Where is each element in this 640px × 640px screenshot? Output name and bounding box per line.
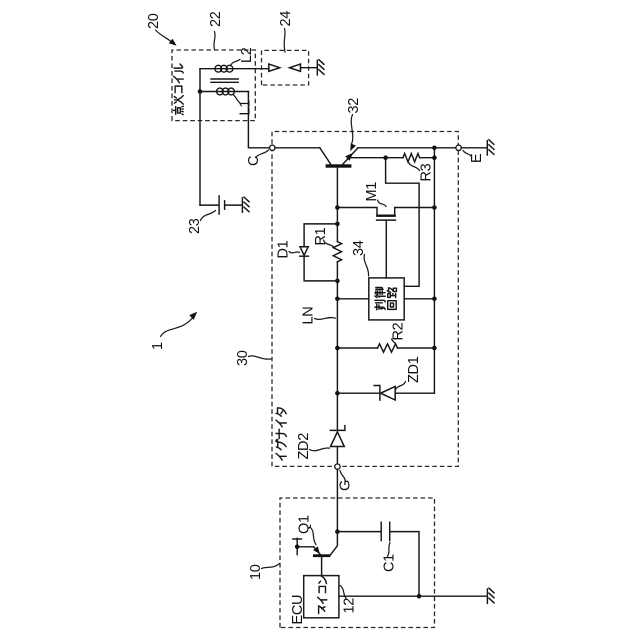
svg-text:34: 34 <box>351 240 367 256</box>
wire battery to ground <box>226 204 242 206</box>
svg-text:12: 12 <box>342 598 358 614</box>
node rail / R3 <box>432 155 437 160</box>
resistor R1 <box>333 242 341 262</box>
label 24 <box>278 11 294 27</box>
IGBT 32 collector lead <box>320 148 331 164</box>
capacitor C1 <box>381 522 390 540</box>
node LN / D1-R1 left <box>335 279 340 284</box>
svg-text:L1: L1 <box>238 100 254 116</box>
leader C1 <box>388 543 391 557</box>
label C <box>246 156 262 166</box>
leader M1 <box>378 200 387 207</box>
leader 22 to coil box <box>214 32 215 50</box>
wire gate line LN <box>336 168 338 431</box>
leader 23 to battery <box>201 211 216 221</box>
node LN / control circuit <box>335 296 340 301</box>
battery 23 (cell) <box>219 196 225 214</box>
label D1 <box>276 240 292 258</box>
ECU dashed box 10 <box>280 498 435 628</box>
svg-text:32: 32 <box>346 98 362 114</box>
label L1 <box>238 100 254 116</box>
ignition coil unit dashed box (points 22, 点火コイル) <box>172 50 255 121</box>
wire R3 to rail <box>420 157 435 159</box>
svg-text:C1: C1 <box>382 554 398 572</box>
node LN / ZD1 branch <box>335 391 340 396</box>
label G <box>338 480 354 491</box>
label 12 <box>342 598 358 614</box>
label LN <box>301 307 317 325</box>
leader 24 to box <box>283 29 286 53</box>
ground (emitter) <box>487 140 494 155</box>
wire M1 gate to control circuit <box>385 220 387 278</box>
label R3 <box>419 163 435 181</box>
IGBT 32 base bar <box>326 164 352 167</box>
label 32 <box>346 98 362 114</box>
wire M1 source to rail <box>395 208 435 216</box>
terminal G (gate terminal) <box>335 464 340 469</box>
leader ZD2 <box>310 448 330 451</box>
supply stub bar <box>293 538 302 554</box>
wire L1 bottom to terminal C <box>248 92 269 148</box>
label L2 <box>239 47 255 63</box>
node rail / emitter line <box>432 145 437 150</box>
label 点火コイル (ignition coil) <box>174 64 184 115</box>
spark plug dashed box 24 <box>262 50 309 85</box>
node rail / R2 <box>432 346 437 351</box>
label 20 (ignition device) <box>146 13 162 29</box>
label ZD2 <box>296 433 312 460</box>
arrow leader 20 to coil box <box>156 30 177 46</box>
wire ECU ground node to ground <box>419 595 487 597</box>
wire D1 bypass branch <box>304 224 337 281</box>
leader D1 <box>289 252 300 253</box>
label 22 <box>208 11 224 27</box>
leader 34 to box <box>364 255 368 277</box>
label ZD1 <box>406 356 422 383</box>
svg-text:D1: D1 <box>276 240 292 258</box>
leader to L1 <box>234 95 241 104</box>
svg-text:ZD2: ZD2 <box>296 433 312 460</box>
svg-text:ZD1: ZD1 <box>406 356 422 383</box>
label ECU <box>290 595 306 625</box>
control circuit box 34 (制御回路) <box>369 278 404 320</box>
wire Q1 base to microcomputer <box>321 557 323 576</box>
diode D1 <box>300 247 309 256</box>
wire G terminal to ZD2 <box>336 447 338 465</box>
resistor R3 <box>403 154 420 162</box>
leader Q1 <box>311 528 317 545</box>
label 23 <box>187 218 203 234</box>
terminal C (collector terminal) <box>270 145 275 150</box>
leader 30 to igniter box <box>249 356 272 359</box>
wire Q1 emitter to supply stub <box>297 546 313 548</box>
wire R2 branch <box>337 347 434 349</box>
node supply stub <box>295 545 300 550</box>
wire C1 to ground node <box>391 532 419 597</box>
wire IGBT emitter to terminal E <box>358 147 456 149</box>
zener diode ZD2 <box>330 426 345 447</box>
inductor L1 primary winding <box>200 88 248 95</box>
label E <box>469 153 485 163</box>
svg-text:R3: R3 <box>419 163 435 181</box>
ground (spark plug) <box>317 60 324 75</box>
wire G to ECU internal node <box>336 469 338 531</box>
svg-text:L2: L2 <box>239 47 255 63</box>
svg-text:G: G <box>338 480 354 491</box>
leader R3 <box>409 163 420 171</box>
label 制御回路 (control circuit) <box>375 288 397 310</box>
svg-text:M1: M1 <box>364 182 380 202</box>
svg-text:22: 22 <box>208 11 224 27</box>
node junction of L1 top and feed wire <box>198 89 203 94</box>
transistor Q1 emitter lead with arrow <box>313 546 321 555</box>
svg-text:20: 20 <box>146 13 162 29</box>
node LN / R2 branch <box>335 346 340 351</box>
svg-text:24: 24 <box>278 11 294 27</box>
node sense / feedback <box>383 155 388 160</box>
wire C to IGBT collector <box>275 147 320 149</box>
terminal E (emitter terminal) <box>456 145 461 150</box>
leader LN to line <box>315 317 336 319</box>
svg-text:E: E <box>469 153 485 163</box>
ground (ECU) <box>487 588 494 603</box>
node ECU ground <box>417 594 422 599</box>
arrow leader 1 <box>161 312 198 337</box>
IGBT 32 emitter lead with arrow <box>343 148 358 164</box>
wire feedback sense to control box <box>386 158 420 287</box>
label イグナイタ (igniter) <box>276 408 286 460</box>
wire microcomputer to ground node <box>339 595 419 597</box>
label C1 <box>382 554 398 572</box>
leader ZD1 <box>396 382 406 390</box>
transformer core <box>211 79 238 82</box>
MOSFET M1 gate bar <box>377 219 396 221</box>
wire control box to rail <box>404 298 434 300</box>
wire control box to LN <box>337 298 368 300</box>
wire M1 drain from LN node <box>337 208 377 216</box>
label M1 <box>364 182 380 202</box>
svg-text:C: C <box>246 156 262 166</box>
svg-text:1: 1 <box>150 342 166 350</box>
leader R2 <box>392 339 397 346</box>
spark gap lower electrode <box>290 64 317 71</box>
leader R1 <box>324 240 335 248</box>
leader 12 to box <box>340 586 347 600</box>
label Q1 <box>297 515 313 534</box>
wire top of coil primary/secondary common feed <box>199 69 201 205</box>
leader to L2 <box>231 59 241 65</box>
arrow leader 32 to IGBT <box>350 115 356 152</box>
ground (battery return) <box>242 197 249 212</box>
node rail / control box <box>432 296 437 301</box>
svg-text:R2: R2 <box>391 322 407 340</box>
svg-text:30: 30 <box>235 350 251 366</box>
resistor R2 <box>378 344 398 352</box>
node ECU output <box>335 529 340 534</box>
MOSFET M1 channel bar <box>376 215 396 217</box>
node LN / M1 drain <box>335 205 340 210</box>
svg-text:LN: LN <box>301 307 317 325</box>
wire emitter sense tap <box>349 157 403 159</box>
wire ECU node to C1 <box>337 531 380 533</box>
microcomputer box 12 (マイコン) <box>304 576 339 618</box>
wire coil feed to battery <box>200 204 218 206</box>
zener diode ZD1 <box>374 386 395 401</box>
leader C <box>256 150 269 158</box>
label R2 <box>391 322 407 340</box>
label マイコン (microcomputer) <box>318 576 327 614</box>
label 34 <box>351 240 367 256</box>
wire E to ground <box>461 147 486 149</box>
wire Q1 collector <box>330 532 337 556</box>
node rail / M1 source <box>432 205 437 210</box>
wire ZD1 branch <box>337 392 434 394</box>
leader G <box>340 471 346 482</box>
label R1 <box>313 227 329 245</box>
leader E <box>463 151 472 157</box>
svg-text:10: 10 <box>248 564 264 580</box>
inductor L2 secondary winding <box>200 65 269 72</box>
wire emitter rail <box>433 148 435 393</box>
igniter dashed box 30 (イグナイタ) <box>272 132 458 467</box>
svg-text:Q1: Q1 <box>297 515 313 534</box>
leader 10 to ECU box <box>262 564 280 569</box>
label 30 <box>235 350 251 366</box>
label 10 <box>248 564 264 580</box>
node LN / D1-R1 right <box>335 222 340 227</box>
transistor Q1 base bar <box>313 554 330 557</box>
spark gap upper electrode <box>269 64 280 71</box>
label 1 (system) <box>150 342 166 350</box>
